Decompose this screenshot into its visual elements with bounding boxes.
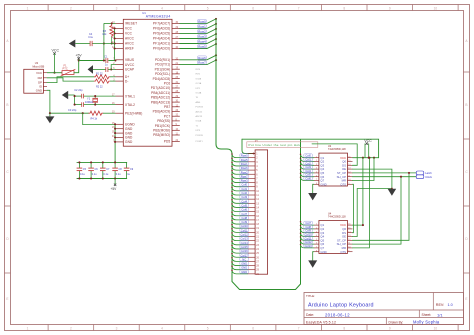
wire bus to U2 Q4 (Col3) — [301, 166, 314, 169]
svg-text:Row7: Row7 — [241, 174, 248, 178]
svg-text:Latch: Latch — [425, 171, 432, 175]
svg-text:Col3: Col3 — [241, 195, 247, 199]
svg-text:Y1: Y1 — [87, 96, 91, 100]
junction — [215, 33, 217, 35]
junction — [215, 59, 217, 61]
svg-text:+5V: +5V — [76, 53, 83, 57]
P1 pin 19 (Col10) — [248, 227, 256, 229]
wire +5V rail to VBUS — [79, 60, 106, 62]
junction — [110, 68, 112, 70]
wire ground row to R4 — [50, 112, 89, 114]
resistor R3 10k (reset pullup) — [110, 25, 114, 37]
svg-text:0.1u: 0.1u — [103, 173, 108, 176]
node Row5 net label — [240, 158, 249, 161]
svg-text:VCC: VCC — [125, 32, 133, 36]
node Row4 net label — [198, 40, 207, 43]
wire U1 !RESET row — [104, 22, 116, 24]
wire bus to P1 pin 26 — [232, 254, 248, 258]
svg-text:VBUS: VBUS — [125, 58, 134, 62]
junction — [231, 236, 233, 238]
svg-text:6: 6 — [316, 243, 317, 245]
svg-text:7: 7 — [316, 247, 317, 249]
junction — [231, 187, 233, 189]
wire bus to P1 pin 14 — [232, 204, 248, 208]
svg-text:8: 8 — [316, 183, 317, 185]
junction — [231, 224, 233, 226]
svg-text:REV:: REV: — [436, 303, 444, 307]
svg-text:OC0A: OC0A — [196, 120, 202, 123]
U1 right pin PF6(ADC6) (29) — [172, 27, 180, 29]
node Col1 net label — [304, 158, 313, 161]
svg-text:GND: GND — [320, 182, 326, 186]
node Row5 net label — [198, 45, 207, 48]
junction — [114, 128, 116, 130]
junction — [300, 225, 302, 227]
junction — [111, 42, 113, 44]
U4 right pin MR (10) — [348, 247, 353, 249]
P1 pin 30 (GND) — [248, 273, 256, 275]
svg-text:Row0: Row0 — [198, 19, 206, 23]
junction — [114, 59, 116, 61]
U4 left pin Q6 (6) — [314, 243, 319, 245]
svg-text:PCINT0: PCINT0 — [196, 135, 204, 137]
junction — [215, 38, 217, 40]
svg-text:7: 7 — [298, 6, 300, 10]
svg-text:PD5: PD5 — [164, 140, 171, 144]
junction — [114, 123, 116, 125]
wire bus to P1 pin 21 — [232, 233, 248, 237]
svg-text:Col14: Col14 — [241, 241, 249, 245]
wire bus to U4 Q5 (Col11) — [301, 237, 314, 240]
U4 right pin OE (13) — [348, 236, 353, 238]
wire U2 MR to VCC — [352, 158, 374, 181]
fuse F1 PTC — [62, 71, 74, 75]
node Col16 net label — [240, 249, 249, 252]
svg-text:+5V: +5V — [111, 187, 118, 191]
junction — [231, 207, 233, 209]
svg-text:PF0(ADC0): PF0(ADC0) — [153, 47, 170, 51]
wire U2 DS feed — [312, 144, 357, 165]
shift register U2 74HC595 — [319, 153, 348, 186]
P1 pin 6 (Row2) — [248, 173, 256, 175]
svg-text:9: 9 — [389, 6, 391, 10]
node Col13 net label — [304, 244, 313, 247]
junction — [231, 174, 233, 176]
svg-text:R4 1k: R4 1k — [91, 118, 98, 121]
ground symbol (AVCC cap) — [69, 40, 76, 48]
P1 pin 12 (Col3) — [248, 198, 256, 200]
svg-text:Col9: Col9 — [241, 220, 247, 224]
node Row6 net label — [240, 166, 249, 169]
junction — [114, 42, 116, 44]
U2 right pin DS (14) — [348, 164, 353, 166]
capacitor C6 0.1u — [90, 162, 92, 168]
svg-text:Col9: Col9 — [305, 229, 311, 233]
svg-text:ADC12: ADC12 — [196, 110, 204, 113]
wire F1 to +5V rail — [74, 61, 79, 73]
svg-text:1/1: 1/1 — [437, 312, 443, 317]
svg-text:AVCC: AVCC — [125, 37, 135, 41]
node Col15 net label — [240, 245, 249, 248]
svg-text:Drawn By:: Drawn By: — [389, 320, 404, 324]
svg-text:GND: GND — [125, 136, 133, 140]
wire bus to U4 Q3 (Col9) — [301, 229, 314, 232]
junction — [231, 261, 233, 263]
svg-text:Col0: Col0 — [241, 183, 247, 187]
node Col13 net label — [240, 237, 249, 240]
svg-text:Col16: Col16 — [241, 249, 249, 253]
wire USB DM crossover — [47, 78, 94, 81]
svg-text:Row1: Row1 — [198, 24, 206, 28]
svg-text:8: 8 — [316, 250, 317, 252]
junction — [78, 177, 80, 179]
U4 left pin Q1 (1) — [314, 224, 319, 226]
wire connector pin1 VCC drop — [242, 139, 255, 153]
P1 pin 15 (Col6) — [248, 211, 256, 213]
svg-text:0.1u: 0.1u — [80, 173, 85, 176]
wire bus to P1 pin 2 — [232, 154, 248, 158]
svg-text:PC6: PC6 — [164, 81, 171, 85]
U2 left pin Q5 (5) — [314, 172, 319, 174]
junction — [231, 270, 233, 272]
ground symbol for OE — [388, 189, 397, 196]
node Col7 net label — [304, 221, 313, 224]
U2 left pin Q3 (3) — [314, 164, 319, 166]
junction — [231, 240, 233, 242]
svg-text:6: 6 — [252, 326, 254, 330]
svg-text:B: B — [6, 103, 8, 107]
svg-text:Col8: Col8 — [241, 216, 247, 220]
U1 right pin PD4(ADC8) (25) — [172, 78, 180, 80]
junction — [114, 32, 116, 34]
U2 right pin Q0 (15) — [348, 161, 353, 163]
title block — [304, 293, 464, 325]
svg-text:Clock: Clock — [425, 175, 432, 179]
node Col5 net label — [304, 173, 313, 176]
P1 pin 8 (Row3) — [248, 182, 256, 184]
junction — [114, 141, 116, 143]
wire Latch: U2 ST_CP to flag and down to U4 ST_CP — [352, 172, 416, 174]
junction — [231, 249, 233, 251]
svg-text:Col8: Col8 — [305, 225, 311, 229]
wire U1 PF6 to bus (Row1) — [180, 24, 216, 29]
junction — [300, 176, 302, 178]
U1 right pin PB5(ADC12) (29) — [172, 96, 180, 98]
junction — [114, 177, 116, 179]
wire USB GND down — [47, 90, 50, 113]
svg-text:10: 10 — [434, 326, 438, 330]
svg-text:PB3(MISO): PB3(MISO) — [153, 133, 170, 137]
svg-text:C3 22p: C3 22p — [68, 108, 77, 112]
U1 right pin PD0(SCL) (18) — [172, 73, 180, 75]
svg-text:EasyEDA V5.5.12: EasyEDA V5.5.12 — [306, 320, 336, 324]
svg-text:9: 9 — [348, 183, 349, 185]
U2 right pin VCC (16) — [348, 157, 353, 159]
P1 pin 26 (Col17) — [248, 256, 256, 258]
wire bus to P1 pin 17 — [232, 216, 248, 220]
svg-text:NC: NC — [242, 257, 246, 261]
node Col8 net label — [240, 216, 249, 219]
svg-text:PTC: PTC — [63, 67, 68, 71]
U1 left pin XTAL2 (16) — [116, 104, 124, 106]
svg-text:OC1A: OC1A — [196, 82, 202, 85]
U2 left pin Q6 (6) — [314, 176, 319, 178]
svg-text:Row1: Row1 — [241, 162, 248, 166]
svg-text:9: 9 — [389, 326, 391, 330]
capacitor C9 1u — [126, 162, 128, 168]
wire left vertical from RESET to +5V rail — [103, 23, 105, 60]
node Row2 net label — [198, 30, 207, 33]
U1 left pin AVCC (24) — [116, 38, 124, 40]
node Col11 net label — [304, 236, 313, 239]
P1 pin 16 (Col7) — [248, 215, 256, 217]
node Col8 net label — [304, 225, 313, 228]
junction — [90, 177, 92, 179]
node Col3 net label — [304, 165, 313, 168]
svg-text:16: 16 — [348, 224, 350, 226]
svg-text:GND: GND — [125, 131, 133, 135]
P1 pin 21 (Col12) — [248, 236, 256, 238]
node Col10 net label — [304, 233, 313, 236]
junction — [231, 195, 233, 197]
svg-text:4: 4 — [161, 6, 163, 10]
P1 pin 17 (Col8) — [248, 219, 256, 221]
wire R2 to U1 D- — [110, 80, 115, 82]
ground symbol (USB) — [49, 113, 51, 116]
svg-text:VCC: VCC — [125, 27, 133, 31]
svg-text:10: 10 — [348, 247, 350, 249]
svg-text:MicroUSB: MicroUSB — [33, 64, 45, 68]
U2 left pin GND (8) — [314, 183, 319, 185]
node Row0 net label — [240, 154, 249, 157]
junction — [253, 153, 255, 155]
svg-text:TITLE:: TITLE: — [306, 294, 315, 298]
U1 left pin UGND (15) — [116, 123, 124, 125]
svg-text:Col4: Col4 — [241, 199, 247, 203]
svg-text:2018-06-12: 2018-06-12 — [325, 312, 350, 317]
svg-text:15: 15 — [348, 160, 350, 162]
svg-text:Col6: Col6 — [305, 177, 311, 181]
node Row7 net label — [198, 61, 207, 64]
junction — [300, 154, 302, 156]
wire bus to U2 Q1 (Col0) — [301, 154, 314, 157]
wire U2 VCC row — [352, 157, 378, 159]
U2 left pin Q2 (2) — [314, 161, 319, 163]
U1 left pin PE2(!HWB) (33) — [116, 112, 124, 114]
U3 pin VCC — [43, 72, 47, 74]
wire bus to P1 pin 25 — [232, 250, 248, 254]
P1 pin 2 (Row0) — [248, 157, 256, 159]
node Col6 net label — [240, 208, 249, 211]
wire bus to P1 pin 4 — [232, 162, 248, 166]
svg-text:R1 22: R1 22 — [96, 72, 103, 75]
svg-text:4: 4 — [161, 326, 163, 330]
resistor R4 1k — [89, 111, 103, 115]
svg-text:PD4(ADC8): PD4(ADC8) — [153, 77, 171, 81]
svg-text:PD3(TX1): PD3(TX1) — [155, 63, 170, 67]
U1 right pin PD5 (22) — [172, 140, 180, 142]
svg-text:1.0: 1.0 — [448, 303, 453, 307]
svg-text:Row5: Row5 — [241, 158, 248, 162]
wire bus to P1 pin 6 — [232, 171, 248, 175]
svg-text:PB7: PB7 — [164, 105, 170, 109]
wire bus to P1 pin 3 — [232, 158, 248, 162]
wire USB VCC to fuse F1 — [47, 72, 62, 74]
svg-text:PB5(ADC12): PB5(ADC12) — [151, 96, 170, 100]
wire bus to U4 Q2 (Col8) — [301, 226, 314, 229]
U1 right pin PF4(ADC4) (27) — [172, 38, 180, 40]
svg-text:14: 14 — [348, 231, 350, 233]
wire U1 PD3 to bus (Row7) — [180, 60, 216, 65]
svg-text:PCINT1: PCINT1 — [196, 141, 204, 143]
wire bus to P1 pin 20 — [232, 229, 248, 233]
svg-text:3: 3 — [116, 6, 118, 10]
svg-text:0.1u: 0.1u — [92, 173, 97, 176]
svg-text:Row2: Row2 — [241, 170, 248, 174]
junction — [103, 42, 105, 44]
svg-text:VCC: VCC — [52, 48, 60, 52]
U4 left pin Q5 (5) — [314, 239, 319, 241]
node GND net label — [240, 270, 249, 273]
svg-text:PB2(MOSI): PB2(MOSI) — [153, 128, 170, 132]
junction — [231, 178, 233, 180]
wire VCC chain down to U4 VCC — [352, 158, 363, 225]
wire R4 to U1 PE2 — [103, 112, 116, 114]
junction — [362, 224, 364, 226]
svg-text:E: E — [6, 297, 8, 301]
U1 left pin VBUS (7) — [116, 59, 124, 61]
svg-text:PD1(SDA): PD1(SDA) — [155, 67, 171, 71]
svg-text:8: 8 — [343, 6, 345, 10]
wire VCC feed rail along top of connector note — [242, 139, 379, 158]
wire bus to P1 pin 13 — [232, 200, 248, 204]
svg-text:VCC: VCC — [36, 71, 42, 75]
svg-text:AREF: AREF — [125, 47, 134, 51]
P1 pin 14 (Col5) — [248, 206, 256, 208]
junction — [231, 265, 233, 267]
connector P1 30-pin FPC — [255, 150, 268, 274]
resistor R2 22 — [94, 79, 110, 83]
junction — [231, 170, 233, 172]
svg-text:C2 22p: C2 22p — [74, 88, 83, 92]
wire bus to P1 pin 7 — [232, 175, 248, 179]
svg-text:GND: GND — [125, 140, 133, 144]
node Col1 net label — [240, 187, 249, 190]
node Col10 net label — [240, 224, 249, 227]
svg-text:11: 11 — [348, 175, 350, 177]
wire R1 to U1 D+ — [110, 76, 115, 78]
U2 right pin Q7S (9) — [348, 183, 353, 185]
U1 right pin PB7 (12) — [172, 106, 180, 108]
wire cap bank bottom rail — [77, 178, 128, 180]
U4 right pin DS (14) — [348, 232, 353, 234]
junction — [300, 157, 302, 159]
svg-text:Col10: Col10 — [241, 224, 249, 228]
U4 left pin Q7 (7) — [314, 247, 319, 249]
junction — [114, 161, 116, 163]
wire bus to U4 Q6 (Col12) — [301, 241, 314, 244]
U3 pin GND — [43, 89, 47, 91]
P1 pin 9 (Col0) — [248, 186, 256, 188]
P1 pin 20 (Col11) — [248, 231, 256, 233]
node Col14 net label — [240, 241, 249, 244]
svg-text:Date:: Date: — [306, 313, 314, 317]
wire U2 Q7S to U4 DS — [352, 184, 353, 232]
U1 right pin PB1(SCK) (9) — [172, 125, 180, 127]
P1 pin 28 (GND) — [248, 265, 256, 267]
wire U1 PF3 to bus (Row4) — [180, 39, 216, 44]
svg-text:D-: D- — [125, 79, 129, 83]
svg-text:UVCC: UVCC — [125, 63, 135, 67]
junction — [215, 18, 217, 20]
ground symbol under U4 — [308, 260, 317, 267]
junction — [300, 232, 302, 234]
svg-text:Col7: Col7 — [305, 221, 311, 225]
U2 left pin Q4 (4) — [314, 168, 319, 170]
wire VCC label to USB VCC net — [54, 54, 56, 73]
junction — [215, 43, 217, 45]
U1 left pin GND (43) — [116, 137, 124, 139]
svg-text:U3: U3 — [35, 61, 39, 65]
svg-text:PE2(!HWB): PE2(!HWB) — [125, 111, 142, 115]
junction — [114, 27, 116, 29]
junction — [114, 132, 116, 134]
junction — [215, 28, 217, 30]
U2 right pin MR (10) — [348, 180, 353, 182]
svg-text:GND: GND — [241, 270, 247, 274]
connector U3 MicroUSB — [24, 69, 44, 93]
svg-text:3: 3 — [316, 164, 317, 166]
U4 right pin Q0 (15) — [348, 228, 353, 230]
node Row3 net label — [240, 179, 249, 182]
P1 pin 23 (Col14) — [248, 244, 256, 246]
U1 left pin GND (23) — [116, 128, 124, 130]
node Clock net label — [416, 175, 424, 179]
wire bus to P1 pin 11 — [232, 191, 248, 195]
svg-text:Row4: Row4 — [198, 40, 206, 44]
svg-text:PF6(ADC6): PF6(ADC6) — [153, 27, 170, 31]
U1 left pin AVCC (44) — [116, 43, 124, 45]
svg-text:74HC595D,118: 74HC595D,118 — [328, 147, 346, 151]
wire U4 MR to VCC chain — [352, 158, 369, 248]
junction — [231, 232, 233, 234]
junction — [231, 245, 233, 247]
wire bus to P1 pin 8 — [232, 179, 248, 183]
junction — [49, 112, 51, 114]
node Col4 net label — [304, 169, 313, 172]
wire U1 PF7 to bus (Row0) — [180, 19, 216, 24]
svg-text:ADC13: ADC13 — [196, 115, 204, 118]
U1 right pin PB3(MISO) (11) — [172, 134, 180, 136]
junction — [78, 59, 80, 61]
wire AVCC decoupling row — [92, 43, 115, 45]
P1 pin 25 (Col16) — [248, 252, 256, 254]
U1 left pin AREF (42) — [116, 48, 124, 50]
wire bus to P1 pin 23 — [232, 241, 248, 245]
U1 left pin UCAP (6) — [116, 69, 124, 71]
capacitor C4 0.1u — [89, 41, 91, 46]
svg-text:Q7S: Q7S — [340, 250, 346, 254]
U2 left pin Q1 (1) — [314, 157, 319, 159]
P1 pin 4 (Row1) — [248, 165, 256, 167]
node Row7 net label — [240, 175, 249, 178]
wire bus to P1 pin 27 — [232, 258, 248, 262]
svg-text:Col15: Col15 — [241, 245, 249, 249]
svg-text:5: 5 — [207, 6, 209, 10]
node Col0 net label — [304, 154, 313, 157]
wire bus to P1 pin 22 — [232, 237, 248, 241]
junction — [102, 161, 104, 163]
